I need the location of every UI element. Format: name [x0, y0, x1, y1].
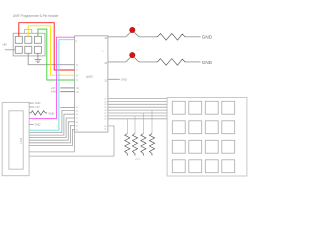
wire header pin5 to AVR pin 9 (green) [38, 29, 75, 80]
resistor R5 pull-up (vertical) [134, 116, 136, 134]
wire GND to AVR pin 11 [60, 91, 74, 93]
wire LCD D1 to AVR pin 16 [29, 114, 75, 135]
svg-text:5m: 5m [137, 50, 140, 52]
pin square 6 (bottom-right GND) [34, 46, 41, 53]
wire LCD D2 to AVR pin 17 [29, 118, 75, 138]
svg-text:AVR: AVR [86, 75, 93, 79]
resistor R7 pull-up (vertical) [151, 110, 153, 133]
resistor R6 pull-up (vertical) [142, 113, 144, 134]
svg-text:AVR Programmer 6-Pin header: AVR Programmer 6-Pin header [13, 14, 59, 18]
wire LCD D0 to AVR pin 15 [29, 110, 75, 132]
svg-text:GND: GND [202, 35, 213, 40]
wire +5V net to AVR bottom-left pin 14 [60, 107, 74, 109]
pin square 1 (MISO row top-left) [15, 36, 22, 43]
LED D1 legs [126, 31, 139, 37]
connector key notch [25, 30, 32, 34]
svg-text:GND: GND [121, 78, 127, 82]
pin square 5 (top-right) [34, 36, 41, 43]
key row1 [172, 101, 185, 114]
wire keypad col line 3 [108, 115, 167, 117]
pin square 2 (bottom-left VCC) [15, 46, 22, 53]
wire AVR pin 40 to LED D1 [108, 36, 126, 38]
LCD module body [2, 102, 29, 175]
LCD screen inner rect [9, 111, 23, 169]
ground symbol below header [35, 53, 42, 62]
wire keypad col line 4 [108, 118, 167, 120]
wire AVR pin 33 to LED D2 [108, 61, 126, 63]
wire LCD E to AVR pin2 (cyan) [29, 40, 75, 131]
pin square 3 (top-middle) [25, 36, 32, 43]
op-amp U1 AVR microcontroller body [75, 36, 108, 132]
wire keypad col line 1 [108, 109, 167, 111]
wire LCD RW stub [29, 123, 33, 125]
wire LCD D5 to AVR pin 20 [29, 129, 75, 145]
resistor R2 (zigzag) [156, 59, 187, 66]
wire LCD backlight anode to AVR bottom pin [29, 132, 74, 152]
resistor R1 (zigzag) [156, 34, 187, 41]
LED D2 legs [126, 56, 139, 62]
wire LCD D3 to AVR pin 18 [29, 122, 75, 140]
wire resistor R2 to GND [187, 61, 201, 63]
svg-text:+5V: +5V [2, 43, 7, 47]
LED D2 body (red) [130, 52, 135, 57]
wire keypad row line 3 [108, 103, 167, 105]
wire +5V stub to header pin 2 [5, 49, 16, 51]
wire keypad row line 1 [108, 98, 167, 100]
svg-text:GND: GND [202, 60, 213, 65]
wire LCD VSS stub [29, 102, 33, 104]
wire LCD D4 to AVR pin 19 [29, 126, 75, 143]
wires AVR to keypad (8 lines) [108, 99, 167, 119]
pins 14-20 labels (bottom-left group) [76, 107, 79, 132]
svg-text:5m: 5m [137, 24, 140, 26]
wire LCD VDD stub [29, 106, 34, 108]
wire LED D1 to resistor R1 [139, 36, 156, 38]
svg-text:GND: GND [35, 101, 41, 105]
key row4 [172, 160, 185, 173]
keypad buttons grid [172, 101, 234, 172]
wire AVR pin 21 to GND [108, 78, 120, 80]
svg-text:GND: GND [35, 123, 41, 127]
wire +5V to AVR pin 10 [60, 87, 74, 89]
LED D1 body (red) [130, 27, 135, 32]
wire LCD backlight cathode to AVR bottom pin (long run) [29, 126, 114, 156]
wire resistor R1 to GND [187, 36, 201, 38]
svg-text:GND: GND [48, 112, 54, 116]
svg-text:+5 V: +5 V [135, 158, 140, 161]
connector J1 AVR ISP 6-pin header body [13, 33, 45, 56]
svg-text:+5V: +5V [35, 105, 40, 109]
resistor R4 pull-up (vertical) [126, 119, 128, 134]
pins 22-29 labels (bottom-right group) [104, 98, 107, 130]
key row3 [172, 140, 185, 153]
wire keypad row line 2 [108, 100, 167, 102]
key row2 [172, 121, 185, 134]
svg-text:+5V: +5V [51, 86, 56, 90]
svg-text:GND: GND [51, 90, 57, 94]
wire LED D2 to resistor R2 [139, 61, 156, 63]
keypad 4x4 body [167, 98, 247, 177]
svg-text:LCD: LCD [19, 137, 23, 144]
resistor R3 LCD contrast to GND (horizontal zigzag) [29, 111, 47, 115]
wire LCD RS to AVR pin1 (magenta) [29, 37, 75, 118]
wire header pin4 to AVR pin 6 (MISO, gray) [28, 53, 74, 64]
wire header pin1 to AVR pin 7 (red) [19, 23, 75, 70]
wire keypad col line 2 [108, 112, 167, 114]
pin square 4 (bottom-middle) [25, 46, 32, 53]
wire keypad row line 4 [108, 106, 167, 108]
wire header pin3 to AVR pin 8 (yellow) [28, 26, 74, 75]
